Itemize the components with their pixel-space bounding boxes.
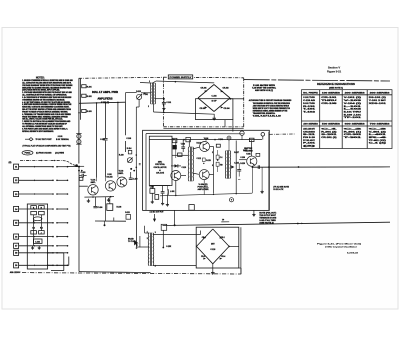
transformer T-104 bbox=[225, 150, 230, 179]
wire T-102 secondary bbox=[153, 231, 201, 266]
capacitor C-115 bbox=[79, 172, 87, 178]
ground bbox=[107, 198, 110, 202]
svg-text:R-131 4.7K: R-131 4.7K bbox=[273, 188, 284, 191]
label A 2 MC OUT bbox=[150, 211, 165, 214]
svg-text:POWER SUPPLY: POWER SUPPLY bbox=[170, 77, 193, 79]
svg-text:Section V: Section V bbox=[328, 66, 340, 70]
svg-text:AND UNITS 5-2 B (?): AND UNITS 5-2 B (?) bbox=[255, 89, 273, 92]
transistor V-104A bbox=[200, 142, 210, 152]
svg-text:C-3: C-3 bbox=[369, 128, 386, 130]
svg-text:Y-101 2 MC: Y-101 2 MC bbox=[369, 100, 387, 102]
svg-text:2 MC Crystal Oscillator: 2 MC Crystal Oscillator bbox=[325, 246, 357, 249]
label V-104 pins bbox=[204, 137, 213, 167]
svg-text:3: 3 bbox=[212, 165, 213, 167]
wire T-101 to bridge top bbox=[156, 81, 214, 83]
output bridge box bbox=[196, 227, 241, 274]
svg-text:AND FUNCTIONS OF IT CHARACTERI: AND FUNCTIONS OF IT CHARACTERISTICS WHIC… bbox=[253, 105, 290, 108]
capacitor C-120 bbox=[181, 140, 185, 152]
svg-text:L-401: L-401 bbox=[369, 133, 386, 136]
wire bridge drops bbox=[225, 120, 233, 132]
svg-text:(2): (2) bbox=[303, 146, 317, 148]
test point on top rail bbox=[240, 131, 244, 140]
label emitter follower bbox=[244, 148, 254, 155]
svg-text:REFER ALL REPAIRS TO DEPOT MAI: REFER ALL REPAIRS TO DEPOT MAINTENANCE. bbox=[22, 130, 54, 133]
test point TP-102 bbox=[229, 198, 233, 202]
wire row bbox=[19, 208, 68, 210]
resistor R-125 bbox=[216, 144, 220, 147]
svg-text:DS-102: DS-102 bbox=[107, 176, 113, 178]
test point TP-101 bbox=[261, 133, 265, 140]
svg-text:600 SERIES: 600 SERIES bbox=[345, 124, 366, 126]
svg-text:1: 1 bbox=[149, 81, 150, 83]
wire drop 1 bbox=[96, 103, 98, 178]
svg-text:V-104 (2): V-104 (2) bbox=[344, 102, 362, 105]
svg-text:C-1: C-1 bbox=[32, 228, 35, 230]
bridge frame box bbox=[196, 99, 233, 120]
svg-text:C-1: C-1 bbox=[321, 128, 336, 130]
capacitor C-103 bbox=[100, 103, 107, 177]
svg-text:R-121: R-121 bbox=[125, 212, 130, 214]
resistor R-126 bbox=[216, 162, 223, 166]
svg-text:CR-105: CR-105 bbox=[321, 103, 336, 105]
reference note paragraph bbox=[249, 99, 292, 118]
wire row bbox=[19, 264, 68, 266]
wire to T-102 primary bbox=[136, 107, 140, 247]
svg-text:700 SERIES: 700 SERIES bbox=[370, 124, 391, 126]
terminal E-104 bbox=[14, 206, 19, 211]
svg-text:L-101: L-101 bbox=[170, 191, 174, 193]
wire column right bbox=[218, 141, 237, 194]
svg-text:C-119: C-119 bbox=[182, 167, 187, 169]
wire drop 4 bbox=[126, 102, 132, 152]
resistor R-121 bbox=[125, 212, 130, 219]
capacitor C-127 bbox=[258, 165, 259, 169]
svg-text:AMPLIFIERS: AMPLIFIERS bbox=[98, 97, 113, 100]
capacitor C-1XX drop bbox=[161, 224, 172, 248]
component K-101 bbox=[107, 197, 121, 211]
resistor R-116 bbox=[155, 195, 159, 200]
ground bbox=[161, 194, 164, 205]
wire bridge output bbox=[229, 98, 243, 100]
notes text block bbox=[22, 77, 73, 133]
wire row bbox=[19, 193, 68, 195]
svg-text:CR-103: CR-103 bbox=[199, 108, 205, 110]
label braid to T-102 bbox=[128, 237, 136, 242]
svg-text:(AC) WIRE: (AC) WIRE bbox=[55, 152, 65, 155]
svg-text:TP-101 TEST POINT: TP-101 TEST POINT bbox=[36, 139, 53, 141]
svg-text:C-1: C-1 bbox=[220, 157, 223, 159]
svg-text:CR-102: CR-102 bbox=[222, 88, 228, 90]
label DIAL LT AMPLIFIER bbox=[92, 91, 118, 104]
svg-text:THRU: THRU bbox=[321, 100, 338, 102]
svg-text:P101A: P101A bbox=[25, 152, 31, 155]
svg-text:(V): (V) bbox=[9, 162, 12, 164]
caution note text bbox=[252, 84, 277, 92]
svg-text:OSCILLATOR: OSCILLATOR bbox=[154, 166, 168, 169]
capacitor C-110 bbox=[129, 172, 138, 181]
wire box drop bbox=[240, 268, 242, 274]
resistor R-105 bbox=[79, 177, 83, 180]
wire dashed bottom bus bbox=[22, 273, 241, 274]
wire emitter follower bbox=[239, 140, 390, 168]
svg-text:C-130: C-130 bbox=[240, 157, 245, 159]
wire right edge column bbox=[268, 132, 270, 211]
resistor R-112 bbox=[172, 138, 177, 142]
svg-text:200 SERIES: 200 SERIES bbox=[345, 92, 366, 94]
svg-text:CR-105: CR-105 bbox=[156, 173, 165, 175]
ground bbox=[211, 264, 215, 275]
svg-text:750: 750 bbox=[220, 164, 223, 166]
label POWER SUPPLY bbox=[168, 75, 192, 79]
svg-text:100 SERIES: 100 SERIES bbox=[322, 92, 341, 94]
svg-text:CR-302: CR-302 bbox=[344, 134, 361, 136]
wire box-bottom to bus bbox=[174, 210, 176, 226]
ground bbox=[31, 246, 34, 249]
svg-text:R-110: R-110 bbox=[119, 155, 124, 157]
junction cluster bbox=[130, 163, 140, 171]
transistor V-105 bbox=[240, 156, 257, 166]
svg-text:5-21/5-22: 5-21/5-22 bbox=[347, 253, 359, 255]
svg-text:R-129: R-129 bbox=[240, 163, 245, 165]
svg-text:Figure 5-21: Figure 5-21 bbox=[327, 69, 342, 73]
svg-text:ALTHOUGH THIS IS CIRCUIT DIAGR: ALTHOUGH THIS IS CIRCUIT DIAGRAM CHANGES bbox=[249, 99, 292, 102]
svg-text:(C) FROM CHASSIS: (C) FROM CHASSIS bbox=[36, 152, 52, 155]
wire osc internal bottom bbox=[160, 167, 252, 196]
svg-text:R-2: R-2 bbox=[40, 228, 43, 230]
crystal Y-101 bbox=[150, 186, 155, 194]
svg-text:CHASSIS: CHASSIS bbox=[303, 130, 316, 133]
svg-text:C-128 A/B: C-128 A/B bbox=[303, 99, 316, 102]
oscillator unit box bbox=[143, 130, 270, 210]
svg-text:2: 2 bbox=[148, 106, 149, 108]
resistor R-124 bbox=[216, 155, 222, 161]
coil L-101 bbox=[167, 189, 174, 194]
svg-text:Y-101: Y-101 bbox=[150, 186, 154, 188]
svg-text:300 SERIES: 300 SERIES bbox=[370, 92, 391, 94]
svg-text:CR-4: CR-4 bbox=[221, 255, 225, 258]
terminal E-102 bbox=[14, 178, 19, 183]
svg-text:CR-101: CR-101 bbox=[321, 97, 336, 99]
svg-text:4: 4 bbox=[155, 264, 156, 267]
svg-text:CR-101: CR-101 bbox=[200, 88, 206, 90]
transistor V-103 bbox=[171, 171, 181, 181]
label wire code bbox=[9, 162, 12, 164]
diode CR-106 bbox=[231, 165, 234, 168]
svg-text:V-103: V-103 bbox=[344, 100, 361, 102]
svg-text:T-104: T-104 bbox=[219, 138, 223, 141]
resistor R-130 bbox=[256, 153, 260, 156]
wire row bbox=[19, 222, 68, 224]
svg-text:R-123: R-123 bbox=[206, 160, 211, 162]
wire row bbox=[19, 179, 68, 181]
diode bridge CR-101/104 bbox=[198, 85, 230, 112]
wire to push-pull bbox=[181, 147, 199, 175]
terminal E-105 bbox=[14, 220, 19, 225]
wire row bbox=[19, 166, 68, 168]
resistor R-119 bbox=[178, 153, 182, 156]
svg-text:C-2: C-2 bbox=[344, 128, 361, 130]
svg-text:CR-2: CR-2 bbox=[220, 237, 224, 239]
wire bridge right bbox=[228, 246, 239, 248]
svg-text:TP-401 (XX): TP-401 (XX) bbox=[369, 139, 387, 142]
wire left bus double bbox=[79, 78, 81, 163]
wire row bbox=[19, 236, 68, 238]
svg-text:R-127: R-127 bbox=[234, 152, 239, 154]
svg-text:R-301 (1): R-301 (1) bbox=[344, 131, 362, 133]
capacitor C-101 bbox=[162, 98, 171, 110]
wire row bbox=[19, 245, 68, 247]
ground bbox=[166, 195, 169, 207]
resistor R-101 bbox=[82, 85, 92, 89]
ground bbox=[212, 114, 216, 120]
ground bbox=[252, 210, 255, 216]
svg-text:C-131: C-131 bbox=[35, 241, 40, 243]
resistor R-102 bbox=[82, 94, 92, 98]
terminal E-107 bbox=[14, 243, 19, 248]
wire stub bbox=[95, 197, 126, 226]
svg-text:E-101 THRU: E-101 THRU bbox=[344, 111, 362, 113]
svg-text:AM-1210/U: AM-1210/U bbox=[303, 127, 316, 130]
wire pp to T-104 bbox=[209, 147, 213, 194]
label T-103 bbox=[181, 138, 223, 146]
svg-text:5-21: 5-21 bbox=[303, 134, 315, 136]
transistor V-102 bbox=[105, 174, 115, 191]
svg-text:C-108: C-108 bbox=[126, 138, 131, 140]
svg-text:R-122: R-122 bbox=[197, 142, 202, 144]
svg-text:V-105: V-105 bbox=[246, 153, 250, 155]
dashed enclosure top rail bbox=[79, 77, 164, 78]
diode bridge CR-2XX bbox=[197, 229, 230, 264]
svg-text:NOTES:: NOTES: bbox=[36, 77, 45, 79]
wire trunk vertical bbox=[68, 164, 151, 272]
svg-text:C-4 (4): C-4 (4) bbox=[369, 142, 387, 145]
svg-text:V-401 (2): V-401 (2) bbox=[369, 130, 387, 133]
svg-text:C-115: C-115 bbox=[81, 172, 86, 174]
dashed stub bbox=[269, 133, 295, 135]
label V-105 bbox=[243, 150, 247, 152]
label C-121 bbox=[182, 142, 202, 169]
svg-text:R-131: R-131 bbox=[303, 106, 315, 108]
wire bus horizontal bbox=[79, 102, 126, 104]
wire T-101 top to rail bbox=[140, 81, 156, 83]
svg-text:CR-201 (3): CR-201 (3) bbox=[321, 137, 337, 139]
wire base feeds bbox=[79, 174, 118, 186]
svg-text:DIAL LT AMPL PWR: DIAL LT AMPL PWR bbox=[92, 91, 118, 94]
svg-text:C-121: C-121 bbox=[197, 158, 202, 160]
svg-text:V-105: V-105 bbox=[243, 150, 247, 152]
svg-text:NO. PREFIX: NO. PREFIX bbox=[303, 92, 318, 94]
label TP note bbox=[273, 187, 289, 192]
svg-text:R-101 THRU: R-101 THRU bbox=[303, 103, 316, 105]
svg-text:CRYSTAL: CRYSTAL bbox=[155, 163, 166, 166]
reference designations table bbox=[302, 83, 393, 148]
terminal E-106 bbox=[14, 234, 19, 239]
svg-text:THE DRAWING IS IDENTICAL FOR T: THE DRAWING IS IDENTICAL FOR THE OPERATI… bbox=[253, 102, 290, 105]
svg-text:CR-3: CR-3 bbox=[201, 256, 205, 258]
svg-text:V-104 (2): V-104 (2) bbox=[199, 183, 208, 186]
svg-text:2MC: 2MC bbox=[158, 161, 163, 163]
wire below power box bbox=[163, 128, 243, 130]
ground bbox=[38, 246, 41, 249]
svg-text:V-101 (2): V-101 (2) bbox=[344, 97, 362, 99]
svg-text:2: 2 bbox=[147, 238, 148, 240]
svg-text:C-102: C-102 bbox=[212, 95, 217, 97]
svg-text:CR-104: CR-104 bbox=[223, 107, 229, 110]
svg-text:C-101: C-101 bbox=[166, 102, 171, 104]
wire dashed feeder bbox=[20, 160, 76, 166]
component box on bottom edge bbox=[189, 205, 194, 211]
rheostat R-115 bbox=[136, 91, 142, 99]
wire pot links bbox=[126, 93, 140, 107]
terminal E-108 bbox=[14, 250, 19, 255]
diode CR-105 bbox=[171, 164, 181, 167]
svg-text:V-104: V-104 bbox=[204, 137, 208, 140]
legend symbols bbox=[22, 136, 71, 155]
wire emitter rail bbox=[84, 196, 114, 198]
label 2MC crystal oscillator bbox=[154, 161, 168, 174]
svg-text:R-102: R-102 bbox=[87, 96, 92, 98]
svg-text:A 2 MC OUT PUT: A 2 MC OUT PUT bbox=[150, 211, 165, 214]
label push-pull amplifier bbox=[198, 183, 210, 191]
wire osc bottom bbox=[150, 181, 176, 196]
resistor R-123 bbox=[202, 158, 210, 164]
svg-text:V-101, R-117 5-3-10, 1-10: V-101, R-117 5-3-10, 1-10 bbox=[253, 116, 282, 118]
lamp DS-101 bbox=[76, 134, 81, 145]
ground bbox=[151, 193, 154, 203]
svg-text:Figure 5-21. (Free Mixer Unit: Figure 5-21. (Free Mixer Unit) bbox=[317, 243, 361, 246]
transistor V-104 bbox=[117, 171, 127, 187]
svg-text:T-101: T-101 bbox=[303, 109, 315, 111]
test point circle bbox=[227, 136, 231, 151]
terminal E-101 bbox=[14, 164, 19, 169]
svg-text:XDS-101: XDS-101 bbox=[369, 103, 386, 105]
svg-text:500 SERIES: 500 SERIES bbox=[322, 124, 341, 126]
svg-text:PC BD ASSY: PC BD ASSY bbox=[303, 139, 316, 142]
svg-text:L-102: L-102 bbox=[344, 109, 361, 111]
svg-text:E-109 J-101: E-109 J-101 bbox=[344, 114, 361, 116]
resistor R-113 bbox=[186, 137, 191, 141]
svg-text:R-114: R-114 bbox=[127, 147, 132, 150]
transformer T-102 bbox=[147, 231, 156, 267]
ground bbox=[87, 199, 90, 203]
wire row bbox=[19, 252, 68, 254]
wire T-102 primary bbox=[137, 226, 150, 247]
svg-text:AM-1210/U: AM-1210/U bbox=[10, 271, 21, 274]
wire T-101 tap bbox=[141, 92, 152, 94]
resistor R-114 bbox=[127, 147, 132, 154]
wire T-101 bottom bbox=[153, 104, 155, 112]
label below connector bbox=[10, 271, 21, 274]
dashed rail right bbox=[244, 80, 390, 81]
capacitor C-126 bbox=[237, 163, 241, 180]
svg-text:C-128: C-128 bbox=[210, 249, 215, 251]
svg-text:TP-101: TP-101 bbox=[344, 117, 361, 119]
svg-text:T-103: T-103 bbox=[181, 144, 185, 146]
svg-text:CR-1: CR-1 bbox=[202, 237, 206, 239]
svg-text:P-101 MATES WITH: P-101 MATES WITH bbox=[253, 84, 276, 87]
svg-text:3: 3 bbox=[155, 232, 156, 234]
page header Section V / Figure 5-21 bbox=[327, 66, 342, 74]
svg-text:REFERENCE DESIGNATIONS: REFERENCE DESIGNATIONS bbox=[317, 83, 356, 86]
svg-text:T-102: T-102 bbox=[303, 111, 315, 113]
transistor V-101 bbox=[88, 180, 98, 196]
ground bbox=[260, 167, 263, 193]
svg-text:L-101: L-101 bbox=[344, 106, 361, 108]
svg-text:2: 2 bbox=[212, 152, 213, 154]
crystal oscillator sub-box bbox=[149, 136, 172, 185]
component box A-101 bbox=[27, 204, 47, 269]
transistor V-104B bbox=[199, 170, 209, 180]
svg-text:R-201 (2): R-201 (2) bbox=[321, 131, 337, 133]
wire drop 3 bbox=[118, 102, 124, 174]
chassis arrow bbox=[134, 240, 139, 249]
wire T-101 to bridge bottom bbox=[154, 112, 215, 115]
wire top bus inside bbox=[149, 139, 262, 141]
svg-text:S-201: S-201 bbox=[321, 134, 336, 136]
power supply dashed box bbox=[163, 77, 243, 127]
svg-text:R-108: R-108 bbox=[117, 207, 122, 209]
wire junction stub bbox=[221, 219, 229, 222]
svg-text:(SEE NOTE 1): (SEE NOTE 1) bbox=[329, 87, 343, 89]
label R-127 bbox=[234, 152, 239, 165]
capacitor C-117 bbox=[161, 186, 165, 193]
wire osc connections bbox=[172, 140, 188, 158]
svg-text:C-125: C-125 bbox=[234, 162, 239, 164]
svg-text:AMPLIFIER: AMPLIFIER bbox=[198, 188, 210, 191]
svg-text:C-106: C-106 bbox=[98, 207, 103, 209]
svg-text:DS-101 (2): DS-101 (2) bbox=[369, 97, 387, 99]
svg-text:R-103: R-103 bbox=[87, 111, 92, 113]
component R-118 bbox=[173, 145, 176, 149]
terminal E-103 bbox=[14, 191, 19, 196]
svg-text:T-101: T-101 bbox=[143, 94, 148, 96]
arrow down to T-102 bbox=[153, 214, 156, 222]
wire bends lower right of connector bbox=[47, 252, 69, 271]
svg-text:C-101 THRU: C-101 THRU bbox=[303, 97, 316, 99]
wire center tap bbox=[155, 98, 164, 100]
wire 2MC output bus bbox=[163, 222, 391, 225]
resistor R-128 bbox=[249, 138, 254, 141]
terminal E-109 bbox=[14, 263, 19, 268]
test point note text bbox=[259, 213, 276, 225]
svg-text:(TYPICAL PLAT OF MAJOR COMPONE: (TYPICAL PLAT OF MAJOR COMPONENTS AND TE… bbox=[23, 145, 71, 148]
capacitor C-106 bbox=[93, 197, 102, 209]
transformer T-101 bbox=[143, 81, 155, 108]
svg-text:R-115: R-115 bbox=[136, 91, 141, 93]
svg-text:E-101 TERMINAL: E-101 TERMINAL bbox=[56, 138, 70, 141]
svg-text:P-101: P-101 bbox=[303, 143, 315, 145]
svg-text:R-101: R-101 bbox=[87, 86, 92, 88]
svg-text:FIG 5-20: FIG 5-20 bbox=[303, 137, 315, 139]
wire long vertical x136 bbox=[136, 107, 138, 170]
rheostat R-117 bbox=[127, 157, 133, 163]
svg-text:400 SERIES: 400 SERIES bbox=[303, 123, 318, 126]
resistor R-103 bbox=[78, 109, 91, 113]
figure caption bbox=[317, 243, 361, 255]
transformer T-103 bbox=[188, 140, 193, 182]
svg-text:T-301: T-301 bbox=[344, 137, 361, 139]
svg-text:C-1XX: C-1XX bbox=[166, 246, 172, 248]
svg-text:C-103: C-103 bbox=[100, 139, 105, 141]
